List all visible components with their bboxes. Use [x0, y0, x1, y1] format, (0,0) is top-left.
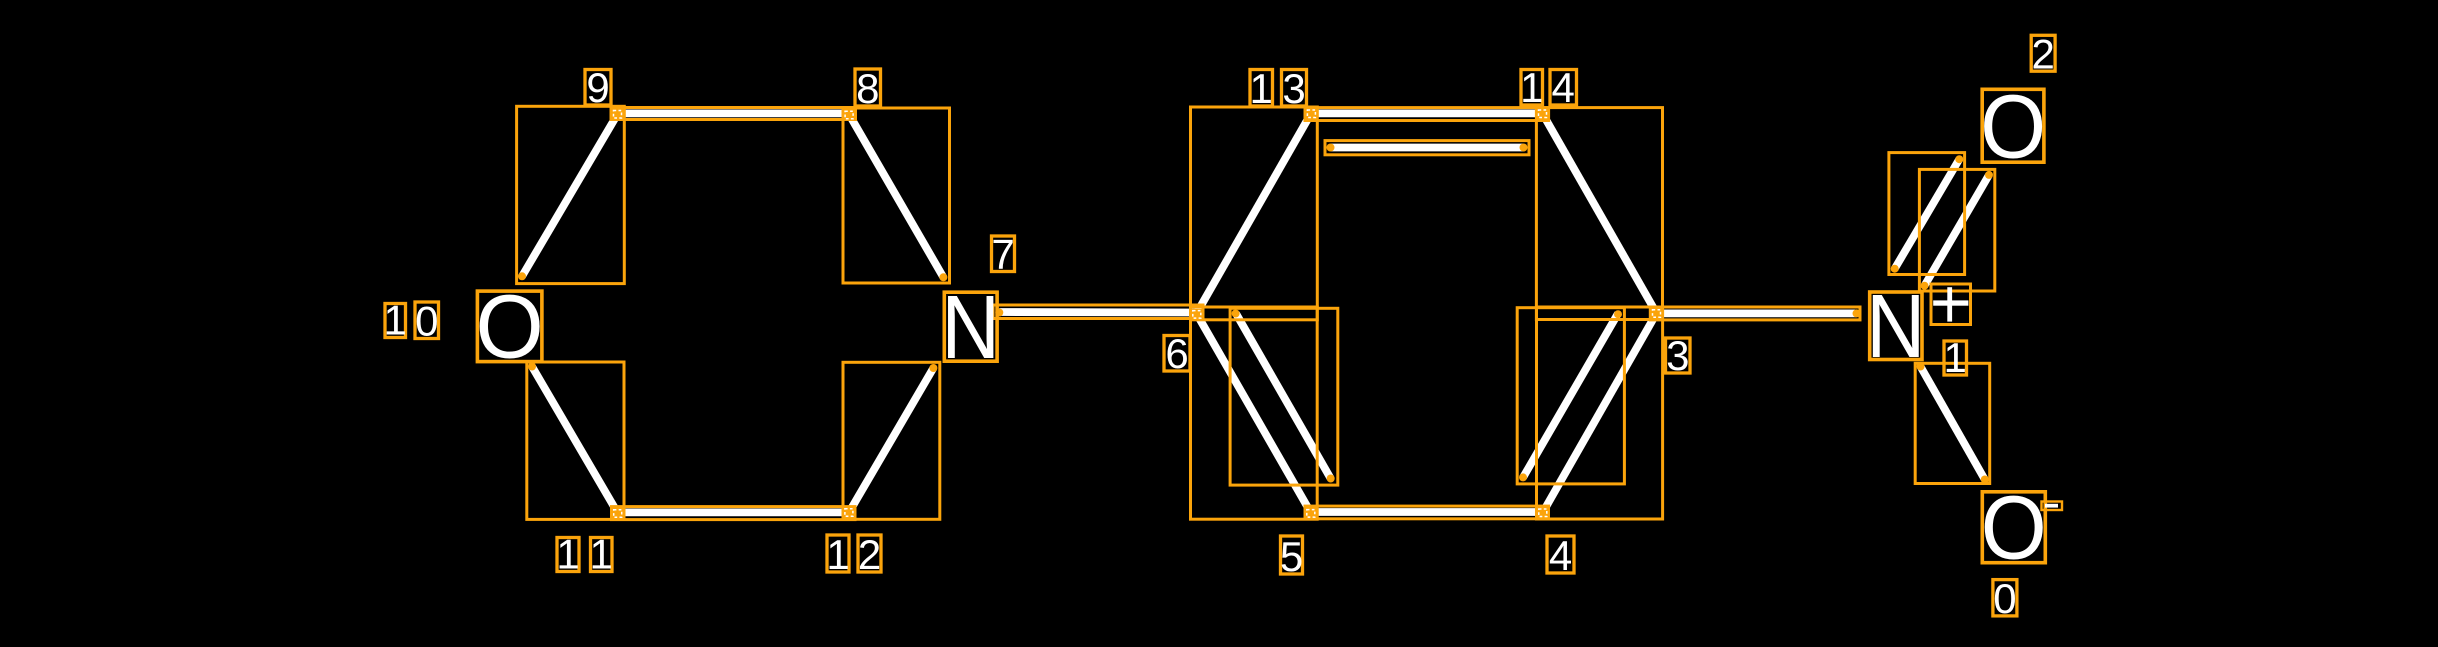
index label 4 text: [1549, 532, 1572, 579]
bond C9-O10: [522, 114, 618, 276]
index label 6 box: [1164, 336, 1190, 372]
atom N1 symbol: [1866, 277, 1925, 377]
svg-text:1: 1: [1250, 65, 1273, 112]
svg-text:3: 3: [1282, 65, 1305, 112]
bond C3-C4 inner: [1523, 314, 1618, 478]
index label 10 digit 0 text: [415, 298, 438, 345]
bond C11-C12: [618, 509, 849, 517]
bond O10-C11: [532, 367, 618, 514]
index label 13 digit 1 text: [1250, 65, 1273, 112]
svg-text:0: 0: [415, 298, 438, 345]
bond N1-O2 line2: [1925, 175, 1990, 286]
box bond C4-C5: [1305, 506, 1549, 519]
endpoint dot bond N7-C6: [995, 309, 1003, 317]
bond N1-O0: [1921, 367, 1985, 480]
svg-text:5: 5: [1280, 533, 1303, 580]
atom C5 marker: [1305, 507, 1316, 519]
bond C9-C8: [618, 110, 850, 118]
box bond N7-C6: [993, 305, 1203, 319]
atom C3 marker: [1651, 308, 1663, 319]
box bond C5-C6 main: [1191, 307, 1318, 519]
box bond N1-O2 line2: [1919, 169, 1994, 291]
index label 2 text: [2032, 30, 2055, 77]
index label 6 text: [1165, 330, 1188, 377]
endpoint dot bond C3-N1: [1853, 309, 1861, 317]
index label 1 text: [1944, 334, 1967, 381]
box bond C3-C4 main: [1537, 307, 1663, 519]
endpoint dot bond C5-C6 inner bottom: [1327, 475, 1335, 483]
svg-text:9: 9: [586, 64, 609, 111]
atom C6 marker: [1191, 309, 1203, 320]
index label 0 text: [1993, 575, 2016, 622]
index label 10 digit 1 text: [384, 297, 407, 344]
index label 3 box: [1666, 338, 1691, 373]
atom N7 symbol: [941, 278, 1000, 378]
svg-text:1: 1: [590, 531, 613, 578]
bond C6-C13: [1197, 114, 1312, 314]
box bond C3-C4 inner: [1517, 308, 1624, 484]
index label 11 digit 1a text: [556, 531, 579, 578]
index label 3 text: [1666, 332, 1689, 379]
index label 5 box: [1281, 536, 1303, 574]
endpoint dot bond C13-C14 inner right: [1520, 144, 1528, 152]
svg-text:8: 8: [856, 65, 879, 112]
index label 8 text: [856, 65, 879, 112]
atom C9 marker: [611, 109, 624, 120]
svg-text:N: N: [1866, 277, 1925, 377]
box bond O10-C11: [527, 362, 624, 519]
svg-text:N: N: [941, 278, 1000, 378]
index label 9 text: [586, 64, 609, 111]
endpoint dot bond C5-C6 inner top: [1232, 310, 1240, 318]
index label 7 box: [992, 236, 1015, 272]
endpoint dot bond C8-N7: [939, 273, 947, 281]
index label 8 box: [855, 69, 881, 106]
index label 9 box: [585, 70, 611, 106]
atom C8 marker: [843, 109, 855, 121]
index label 14 digit 4 text: [1552, 64, 1575, 111]
bond C4-C5: [1311, 508, 1543, 516]
endpoint dot bond N1-O2 line1 high: [1955, 155, 1963, 163]
bond C5-C6 inner: [1236, 314, 1331, 479]
atom N7 box: [944, 292, 997, 361]
index label 2 box: [2031, 35, 2055, 71]
box bond C6-C13: [1191, 107, 1318, 320]
atom O2 box: [1982, 89, 2044, 162]
bond C13-C14 inner: [1331, 144, 1524, 152]
index label 12 digit 2 box: [858, 535, 881, 572]
index label 11 digit 1b text: [590, 531, 613, 578]
bond N1-O2 line1: [1895, 159, 1960, 269]
box bond C13-C14 main: [1305, 108, 1549, 121]
index label 0 box: [1993, 580, 2017, 616]
index label 13 digit 3 text: [1282, 65, 1305, 112]
atom O0 symbol: [1981, 478, 2047, 578]
atom C14 marker: [1536, 108, 1548, 120]
index label 10 digit 1 box: [385, 304, 406, 338]
svg-text:1: 1: [384, 297, 407, 344]
index label 11 digit 1b box: [591, 538, 613, 572]
index label 14 digit 1 box: [1521, 70, 1543, 106]
atom N1 box: [1870, 292, 1922, 360]
endpoint dot bond C13-C14 inner left: [1327, 144, 1335, 152]
svg-text:1: 1: [826, 531, 849, 578]
bond C5-C6 main: [1197, 314, 1312, 514]
atom O10 symbol: [475, 277, 543, 377]
bond C3-C4 main: [1543, 313, 1657, 512]
charge minus box (O0-): [2042, 502, 2063, 511]
endpoint dot bond C3-C4 inner bottom: [1519, 473, 1527, 481]
atom C11 marker: [612, 507, 624, 519]
atom O0 box: [1982, 492, 2045, 563]
box bond C3-N1: [1650, 307, 1860, 320]
svg-text:O: O: [1980, 78, 2046, 178]
index label 12 digit 1 box: [827, 535, 849, 572]
endpoint dot bond O10-C11: [528, 363, 536, 371]
endpoint dot bond N1-O0 bottom: [1981, 476, 1989, 484]
box bond C5-C6 inner: [1230, 308, 1338, 485]
index label 4 box: [1547, 536, 1574, 573]
box bond N1-O0: [1915, 363, 1990, 483]
bond C14-C3: [1543, 114, 1657, 314]
bond C8-N7: [849, 114, 943, 277]
atom C12 marker: [843, 506, 855, 518]
index label 10 digit 0 box: [415, 302, 439, 339]
index label 13 digit 1 box: [1250, 70, 1273, 107]
index label 12 digit 1 text: [826, 531, 849, 578]
svg-text:7: 7: [991, 231, 1014, 278]
endpoint dot bond N1-O0 top: [1917, 363, 1925, 371]
endpoint dot bond N1-O2 line1 low: [1891, 265, 1899, 273]
endpoint dot bond N1-O2 line2 low: [1921, 282, 1929, 290]
svg-text:4: 4: [1549, 532, 1572, 579]
index label 7 text: [991, 231, 1014, 278]
box bond C11-C12: [612, 507, 856, 520]
index label 1 box: [1944, 341, 1967, 375]
svg-text:1: 1: [1944, 334, 1967, 381]
box bond C12-N7: [843, 362, 940, 519]
bond C13-C14 main: [1311, 110, 1543, 118]
atom O2 symbol: [1980, 78, 2046, 178]
atom C4 marker: [1537, 507, 1548, 518]
index label 12 digit 2 text: [858, 531, 881, 578]
box bond C14-C3: [1536, 108, 1662, 320]
svg-text:O: O: [475, 277, 543, 377]
index label 14 digit 1 text: [1520, 64, 1543, 111]
svg-text:O: O: [1981, 478, 2047, 578]
charge plus box (N1+): [1931, 284, 1971, 325]
bond C12-N7: [849, 368, 933, 512]
endpoint dot bond C12-N7: [929, 364, 937, 372]
svg-text:1: 1: [556, 531, 579, 578]
svg-text:2: 2: [2032, 30, 2055, 77]
charge plus symbol: [1933, 287, 1968, 321]
charge minus symbol: [2045, 504, 2058, 508]
bond N7-C6: [999, 308, 1196, 316]
svg-text:4: 4: [1552, 64, 1575, 111]
svg-text:1: 1: [1520, 64, 1543, 111]
box bond C9-C8: [611, 108, 856, 120]
index label 14 digit 4 box: [1550, 70, 1577, 106]
box bond C8-N7: [843, 108, 950, 283]
atom C13 marker: [1305, 108, 1317, 120]
svg-text:3: 3: [1666, 332, 1689, 379]
index label 13 digit 3 box: [1282, 70, 1307, 107]
endpoint dot bond C9-O10: [518, 272, 526, 280]
box bond C13-C14 inner: [1325, 141, 1529, 155]
box bond C9-O10: [517, 106, 625, 283]
svg-text:6: 6: [1165, 330, 1188, 377]
bond C3-N1: [1657, 309, 1857, 317]
atom O10 box: [477, 291, 542, 362]
box bond N1-O2 line1: [1889, 153, 1965, 275]
index label 5 text: [1280, 533, 1303, 580]
svg-text:0: 0: [1993, 575, 2016, 622]
index label 11 digit 1a box: [557, 538, 579, 572]
endpoint dot bond N1-O2 line2 high: [1985, 171, 1993, 179]
svg-text:2: 2: [858, 531, 881, 578]
endpoint dot bond C3-C4 inner top: [1614, 310, 1622, 318]
